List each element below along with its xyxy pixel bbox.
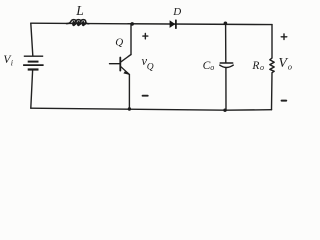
transistor emitter arrow xyxy=(123,71,129,75)
label - of vQ xyxy=(143,95,148,97)
wire collector diagonal xyxy=(121,55,131,62)
node capacitor top junction xyxy=(224,22,228,26)
svg-text:D: D xyxy=(172,6,181,18)
capacitor Co xyxy=(220,62,233,64)
wire emitter vertical xyxy=(128,75,130,110)
svg-text:L: L xyxy=(75,3,84,18)
svg-text:i: i xyxy=(11,59,13,68)
svg-text:o: o xyxy=(210,63,214,72)
wire left lower xyxy=(31,71,33,109)
svg-text:Q: Q xyxy=(147,63,154,73)
node capacitor bottom junction xyxy=(223,109,226,112)
wire capacitor top lead xyxy=(225,23,227,62)
battery Vi xyxy=(23,56,43,69)
label + of Vo xyxy=(281,34,287,40)
wire top xyxy=(31,23,272,24)
wire bottom xyxy=(31,108,272,110)
wire right upper xyxy=(271,25,273,58)
resistor Ro xyxy=(270,58,274,73)
wire collector vertical xyxy=(130,24,132,55)
label + of vQ xyxy=(143,33,148,39)
label - of Vo xyxy=(282,100,287,102)
wire capacitor bottom lead xyxy=(225,68,227,110)
inductor L xyxy=(67,20,89,27)
wire left upper xyxy=(31,23,33,55)
diode D xyxy=(170,20,176,28)
transistor Q xyxy=(110,58,130,75)
svg-text:Q: Q xyxy=(115,36,123,48)
node emitter junction xyxy=(128,107,131,110)
svg-text:o: o xyxy=(260,63,264,72)
svg-text:o: o xyxy=(288,62,292,72)
wire right lower xyxy=(271,73,274,110)
node collector junction xyxy=(130,22,134,26)
svg-text:R: R xyxy=(251,60,259,72)
